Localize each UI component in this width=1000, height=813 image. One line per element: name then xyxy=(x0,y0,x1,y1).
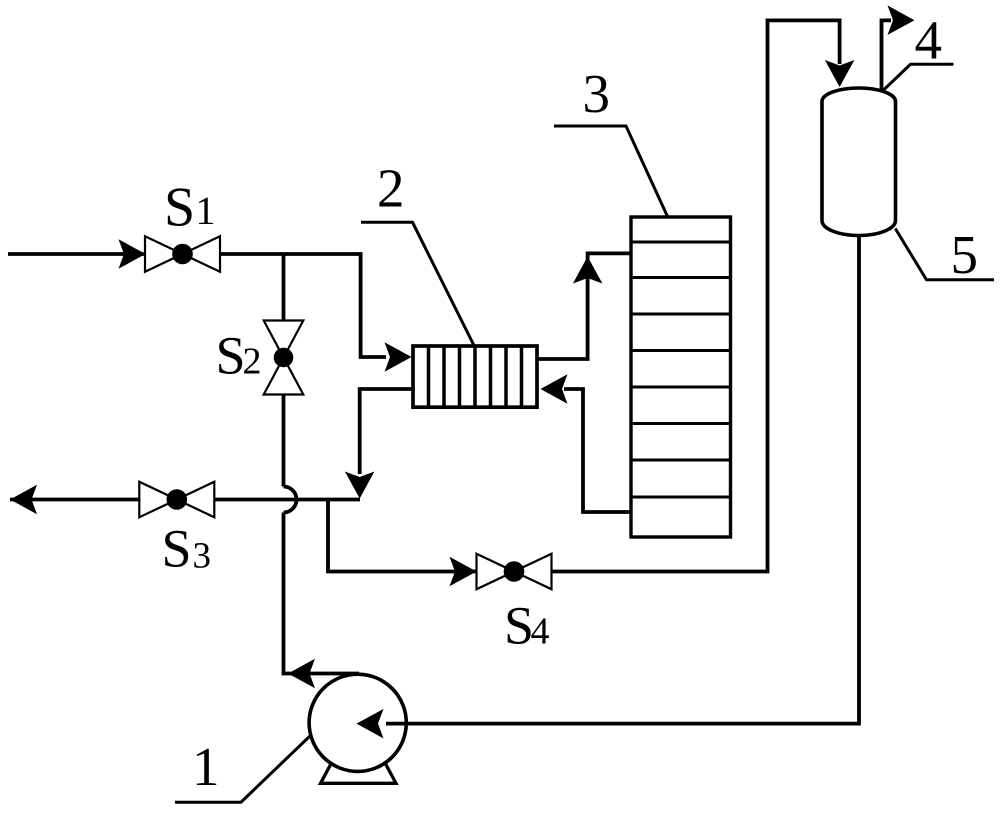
wire: pump discharge riser through S2 up to feed line xyxy=(282,254,286,487)
wire: vessel bottoms down and left into pump suction xyxy=(859,234,861,724)
arrow: pump discharge pointing left at corner xyxy=(288,659,315,688)
svg-text:5: 5 xyxy=(951,224,979,285)
svg-text:S: S xyxy=(216,326,246,386)
pump 1 circle xyxy=(309,674,406,771)
svg-text:2: 2 xyxy=(377,158,405,219)
arrow: down into vessel 4 top xyxy=(825,60,855,87)
arrow: vapor up xyxy=(573,257,603,284)
svg-text:1: 1 xyxy=(192,736,220,797)
heat exchanger 2 internal tubes xyxy=(429,346,522,407)
valve S1 xyxy=(145,236,220,272)
wire: S3 drain line with exit arrow xyxy=(10,498,360,502)
leader for label 5 xyxy=(895,229,994,280)
arrow: down into drain line junction xyxy=(345,472,375,499)
wire: HX cold outlet down to drain junction xyxy=(360,389,413,474)
arrow: left into heat exchanger right inlet xyxy=(541,374,568,404)
arrow: vent exit right xyxy=(888,5,915,35)
wire: branch down through S4 and up to condenser feed xyxy=(328,20,840,571)
svg-text:4: 4 xyxy=(915,10,943,71)
valve S2 xyxy=(264,321,304,395)
wire: pump suction line entering circle xyxy=(386,722,859,726)
pump 1 base xyxy=(321,760,397,783)
svg-text:3: 3 xyxy=(583,63,611,124)
column 3 shell xyxy=(631,217,731,537)
svg-text:4: 4 xyxy=(531,611,550,653)
wire: feed line through S1 to down-corner xyxy=(8,254,386,357)
leader for label 2 xyxy=(361,222,474,345)
arrow: into pump center xyxy=(357,709,384,739)
vessel 4 body xyxy=(822,88,896,236)
valve S4 xyxy=(477,554,552,590)
arrow: flow right into S4 xyxy=(450,557,477,586)
svg-text:3: 3 xyxy=(193,536,212,577)
arrow: into heat exchanger left inlet xyxy=(385,342,412,372)
wire: column bottoms back into HX right side xyxy=(564,389,631,512)
arrow: feed flow right xyxy=(119,239,146,269)
leader for label 4 xyxy=(882,64,954,91)
svg-text:S: S xyxy=(164,177,195,239)
svg-text:2: 2 xyxy=(243,341,262,383)
wire hop: riser hops over S3 line xyxy=(284,487,297,513)
leader for label 1 xyxy=(175,736,311,803)
svg-text:S: S xyxy=(162,519,192,579)
heat exchanger 2 body xyxy=(413,346,537,407)
valve S3 xyxy=(139,482,214,518)
leader for label 3 xyxy=(554,126,668,217)
wire: HX hot outlet up into column 3 xyxy=(537,253,631,359)
wire: vessel vent up and out xyxy=(882,20,892,93)
svg-text:1: 1 xyxy=(196,188,216,233)
wire: riser lower part down to pump outlet corner xyxy=(284,513,360,674)
arrow: exit left xyxy=(10,485,37,514)
column 3 trays xyxy=(631,242,731,497)
